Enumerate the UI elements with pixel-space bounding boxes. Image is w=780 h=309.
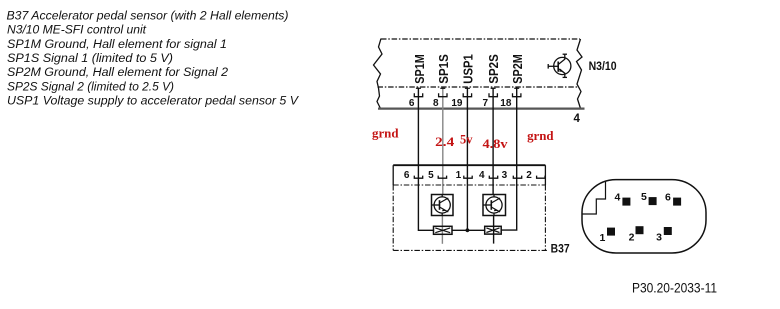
svg-text:2.4: 2.4 xyxy=(435,134,455,149)
svg-text:N3/10 ME-SFI control unit: N3/10 ME-SFI control unit xyxy=(7,25,147,37)
svg-text:1: 1 xyxy=(599,232,605,244)
svg-text:4: 4 xyxy=(479,170,485,181)
svg-text:SP1M: SP1M xyxy=(413,54,427,84)
svg-text:4.8v: 4.8v xyxy=(483,136,509,151)
svg-text:SP1S: SP1S xyxy=(437,54,451,84)
svg-text:4: 4 xyxy=(614,192,620,204)
svg-text:4: 4 xyxy=(574,113,581,125)
svg-text:6: 6 xyxy=(404,170,410,181)
svg-text:USP1 Voltage supply to acceler: USP1 Voltage supply to accelerator pedal… xyxy=(7,96,299,108)
svg-text:SP1S Signal 1 (limited to 5 V): SP1S Signal 1 (limited to 5 V) xyxy=(7,53,173,65)
svg-text:B37 Accelerator pedal sensor (: B37 Accelerator pedal sensor (with 2 Hal… xyxy=(7,10,289,22)
svg-text:6: 6 xyxy=(409,98,415,109)
svg-text:19: 19 xyxy=(451,98,463,109)
svg-text:3: 3 xyxy=(502,170,508,181)
svg-text:18: 18 xyxy=(500,98,512,109)
svg-text:SP1M Ground, Hall element for: SP1M Ground, Hall element for signal 1 xyxy=(7,39,227,51)
svg-text:6: 6 xyxy=(665,192,671,204)
svg-text:SP2M: SP2M xyxy=(511,54,525,84)
svg-text:N3/10: N3/10 xyxy=(589,61,617,73)
svg-text:SP2M Ground, Hall element for: SP2M Ground, Hall element for Signal 2 xyxy=(7,67,229,79)
svg-text:2: 2 xyxy=(629,231,635,243)
svg-text:5: 5 xyxy=(641,191,647,203)
svg-text:3: 3 xyxy=(656,232,662,244)
svg-text:grnd: grnd xyxy=(372,125,399,140)
svg-text:SP2S: SP2S xyxy=(487,54,501,84)
svg-text:USP1: USP1 xyxy=(462,54,476,84)
svg-text:2: 2 xyxy=(526,170,532,181)
svg-text:5: 5 xyxy=(428,170,434,181)
svg-text:8: 8 xyxy=(433,98,439,109)
svg-text:7: 7 xyxy=(483,98,489,109)
svg-text:grnd: grnd xyxy=(527,128,554,143)
svg-text:B37: B37 xyxy=(551,244,570,256)
svg-text:5v: 5v xyxy=(460,132,473,147)
svg-text:1: 1 xyxy=(456,170,462,181)
svg-text:P30.20-2033-11: P30.20-2033-11 xyxy=(632,279,717,295)
svg-text:SP2S Signal 2 (limited to 2.5: SP2S Signal 2 (limited to 2.5 V) xyxy=(7,81,174,93)
